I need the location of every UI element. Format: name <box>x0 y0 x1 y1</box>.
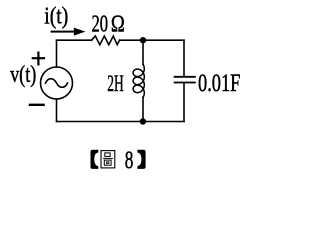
svg-text:i(t): i(t) <box>44 3 68 30</box>
inductor L 2H curl <box>133 64 144 97</box>
svg-text:v(t): v(t) <box>10 61 36 88</box>
caption left lenticular bracket <box>91 150 99 169</box>
svg-text:Ω: Ω <box>111 10 125 37</box>
node B bottom junction dot <box>140 118 146 124</box>
wire left branch upper <box>56 40 58 67</box>
caption character tu (figure) <box>101 151 115 168</box>
svg-text:0.01F: 0.01F <box>198 70 240 97</box>
wire right branch lower <box>183 83 185 121</box>
caption right lenticular bracket <box>137 150 145 169</box>
capacitor C 0.01F bottom plate <box>174 82 196 84</box>
svg-text:2H: 2H <box>107 71 124 97</box>
plus sign <box>32 52 45 66</box>
wire left branch lower <box>56 99 58 122</box>
source V1 circle <box>41 67 73 99</box>
wire right branch upper <box>183 40 185 76</box>
resistor R 20ohm zigzag <box>92 36 120 45</box>
minus sign <box>29 104 45 106</box>
capacitor C 0.01F top plate <box>174 76 196 78</box>
current arrow i(t) <box>51 28 86 36</box>
svg-text:8: 8 <box>125 145 134 174</box>
wire top-right segment <box>120 39 185 41</box>
wire top-left segment <box>57 39 92 41</box>
svg-text:20: 20 <box>92 10 109 37</box>
node A top junction dot <box>140 37 146 43</box>
wire bottom <box>57 121 185 123</box>
inductor L 2H wire upper <box>142 40 144 64</box>
inductor L 2H wire lower <box>142 97 144 121</box>
source sine wave <box>46 79 68 88</box>
